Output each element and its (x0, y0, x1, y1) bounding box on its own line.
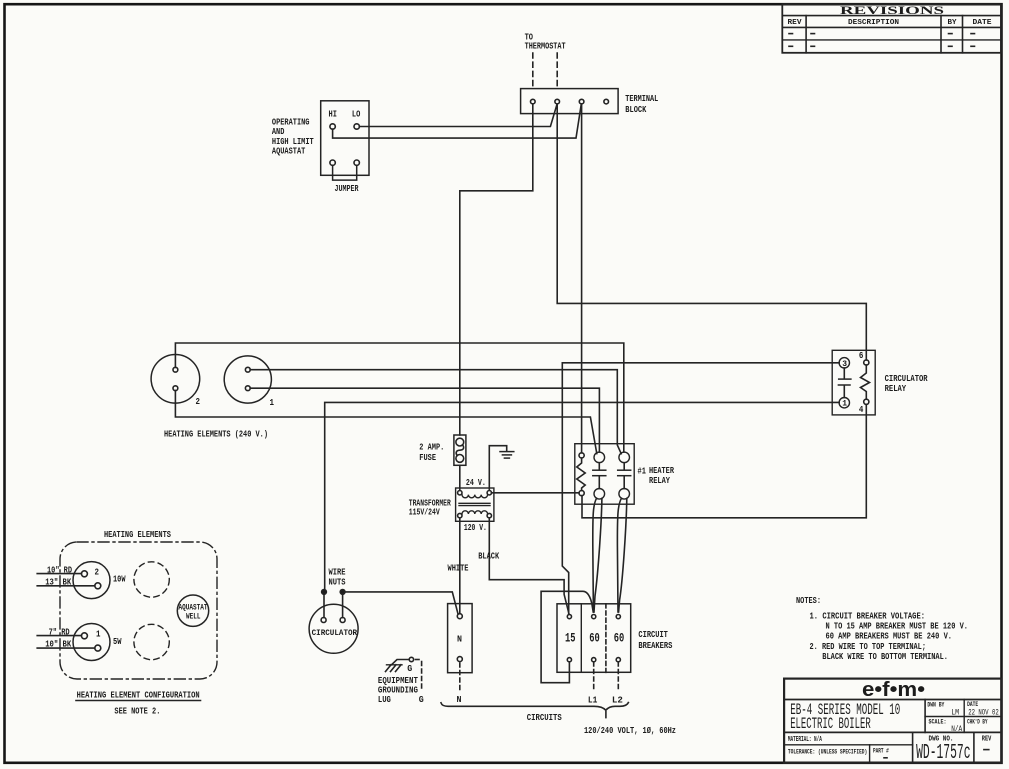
svg-text:RELAY: RELAY (885, 383, 907, 394)
svg-text:HEATING ELEMENTS: HEATING ELEMENTS (104, 529, 171, 540)
label TO THERMOSTAT (525, 32, 566, 52)
wire nuts (322, 567, 346, 595)
svg-text:LM: LM (951, 708, 959, 717)
svg-text:HEATING ELEMENTS (240 V.): HEATING ELEMENTS (240 V.) (164, 428, 268, 439)
wire node to circulator relay pin 1 (325, 402, 839, 589)
config element 1 leads (37, 626, 95, 649)
svg-text:G: G (407, 663, 412, 674)
svg-text:2: 2 (196, 396, 201, 407)
svg-text:L1: L1 (588, 694, 598, 705)
svg-text:DWN BY: DWN BY (927, 701, 944, 708)
svg-text:15: 15 (565, 630, 576, 645)
svg-text:PART #: PART # (873, 748, 889, 756)
wire heater relay contact 1 to 60A breaker L1 (593, 498, 602, 612)
wire 120V line to circulator relay pin 3 (562, 363, 839, 615)
svg-text:60: 60 (614, 630, 625, 645)
wire HI to terminal 3 (333, 105, 582, 139)
svg-text:N: N (457, 694, 462, 705)
svg-text:CHK'D BY: CHK'D BY (967, 718, 987, 725)
wire element 1 bottom to heater relay contact 1 (250, 388, 599, 452)
svg-text:TERMINAL: TERMINAL (625, 93, 658, 104)
wire LO to terminal 2 (359, 105, 557, 127)
svg-text:BLACK WIRE TO BOTTOM TERMINAL.: BLACK WIRE TO BOTTOM TERMINAL. (822, 651, 948, 662)
svg-text:CIRCULATOR: CIRCULATOR (312, 628, 358, 638)
svg-text:HI: HI (329, 109, 337, 120)
svg-text:DATE: DATE (973, 19, 992, 27)
heater relay K1 (575, 444, 675, 505)
wire element 1 top to heater relay contact 2 (250, 370, 621, 454)
svg-text:REV: REV (982, 735, 992, 743)
svg-text:BLACK: BLACK (478, 551, 499, 562)
aquastat well (177, 595, 208, 626)
svg-text:AQUASTAT: AQUASTAT (272, 146, 306, 157)
svg-text:SEE NOTE 2.: SEE NOTE 2. (114, 705, 160, 716)
svg-text:#1: #1 (638, 465, 647, 476)
config element 2 leads (37, 564, 95, 587)
wire circulator relay pin 4 to coil return (582, 404, 866, 517)
wire element 2 top to heater relay contact 2 (175, 343, 623, 452)
svg-text:WELL: WELL (186, 612, 201, 621)
white wire transformer to neutral strip (448, 518, 469, 614)
svg-text:24 V.: 24 V. (466, 477, 486, 488)
svg-text:MATERIAL: N/A: MATERIAL: N/A (788, 736, 822, 744)
svg-text:ELECTRIC BOILER: ELECTRIC BOILER (790, 715, 871, 733)
wire heater relay contact 2 to 60A breaker L2 (617, 498, 626, 612)
wire transformer 24V to heater relay coil (492, 492, 580, 494)
wire 15A breaker bottom tie (541, 591, 593, 682)
svg-text:WD-1757c: WD-1757c (916, 742, 970, 765)
neutral terminal strip N (448, 604, 473, 705)
black wire transformer to 15A breaker (478, 518, 569, 614)
ground (24V common) (489, 446, 514, 490)
svg-text:N: N (457, 634, 462, 645)
svg-text:G: G (419, 694, 424, 705)
circulator pump (309, 604, 358, 653)
svg-text:BREAKERS: BREAKERS (638, 640, 672, 651)
L2 lead (612, 662, 623, 705)
svg-text:120/240 VOLT, 1Ø, 60Hz: 120/240 VOLT, 1Ø, 60Hz (584, 725, 676, 736)
wire terminal 2 to circulator relay pin 6 (557, 104, 866, 360)
circulator relay K2 (832, 350, 928, 415)
svg-text:BY: BY (948, 19, 958, 27)
config caption (76, 689, 201, 716)
circuit breakers (557, 604, 673, 673)
config spare element positions (134, 562, 169, 660)
brace CIRCUITS (441, 703, 676, 737)
heating element 2 (151, 355, 200, 408)
jumper (333, 165, 359, 194)
svg-text:10" RD: 10" RD (47, 564, 72, 575)
fuse F1 2 AMP (419, 435, 466, 465)
heating element 1 (224, 356, 274, 408)
svg-text:DESCRIPTION: DESCRIPTION (848, 19, 899, 27)
svg-text:DATE: DATE (967, 701, 978, 708)
svg-text:L2: L2 (612, 694, 623, 705)
wire fuse to transformer (459, 465, 461, 490)
wire terminal 3 to heater relay coil (581, 104, 583, 453)
svg-text:4: 4 (859, 404, 864, 415)
svg-text:5W: 5W (113, 636, 122, 647)
svg-text:115V/24V: 115V/24V (409, 506, 440, 517)
svg-text:LO: LO (352, 109, 361, 120)
svg-text:120 V.: 120 V. (464, 522, 487, 533)
svg-text:TOLERANCE: (UNLESS SPECIFIED): TOLERANCE: (UNLESS SPECIFIED) (788, 748, 867, 756)
svg-text:10W: 10W (113, 574, 126, 585)
heating element configuration box (60, 529, 217, 679)
svg-text:13" BK: 13" BK (45, 576, 71, 587)
equipment grounding lug (378, 657, 424, 705)
wire nut 2 to circulator (342, 594, 344, 617)
svg-text:JUMPER: JUMPER (335, 183, 359, 194)
title block (784, 679, 1001, 766)
terminal block TB (521, 89, 659, 116)
svg-text:BLOCK: BLOCK (625, 104, 646, 115)
svg-text:NUTS: NUTS (329, 577, 346, 588)
wire nut 2 to neutral strip (345, 592, 458, 614)
svg-text:1: 1 (270, 397, 275, 408)
svg-text:e•f•m•: e•f•m• (862, 679, 925, 701)
svg-text:CIRCUITS: CIRCUITS (527, 712, 562, 723)
svg-text:HEATING ELEMENT CONFIGURATION: HEATING ELEMENT CONFIGURATION (77, 689, 200, 700)
wire terminal 1 to fuse (460, 104, 533, 435)
svg-text:SCALE:: SCALE: (929, 719, 947, 726)
thermostat dashed leads (533, 53, 557, 89)
svg-text:1: 1 (96, 628, 101, 639)
svg-text:NOTES:: NOTES: (796, 595, 821, 606)
wire element 2 bottom to heater relay contact 1 (175, 391, 596, 454)
svg-text:6: 6 (859, 350, 864, 361)
transformer T1 (409, 477, 494, 533)
svg-text:THERMOSTAT: THERMOSTAT (525, 41, 566, 52)
svg-text:FUSE: FUSE (419, 452, 436, 463)
svg-text:RELAY: RELAY (649, 475, 670, 486)
notes text (796, 595, 968, 662)
svg-text:REV: REV (788, 19, 803, 27)
svg-text:1: 1 (842, 400, 847, 409)
svg-text:REVISIONS: REVISIONS (840, 5, 944, 17)
revisions table (782, 4, 1001, 53)
svg-text:CIRCUIT: CIRCUIT (638, 629, 668, 640)
aquastat box (272, 101, 369, 176)
config element 1 (73, 624, 122, 661)
svg-text:7" RD: 7" RD (49, 626, 70, 637)
svg-text:2: 2 (95, 566, 100, 577)
svg-text:22 NOV 02: 22 NOV 02 (968, 708, 999, 717)
svg-text:WHITE: WHITE (448, 563, 469, 574)
L1 lead (588, 662, 598, 705)
wire nut 1 to circulator (323, 594, 325, 617)
svg-text:LUG: LUG (378, 694, 391, 705)
config element 2 (73, 562, 126, 599)
svg-text:60: 60 (589, 630, 600, 645)
svg-text:10" BK: 10" BK (45, 638, 71, 649)
